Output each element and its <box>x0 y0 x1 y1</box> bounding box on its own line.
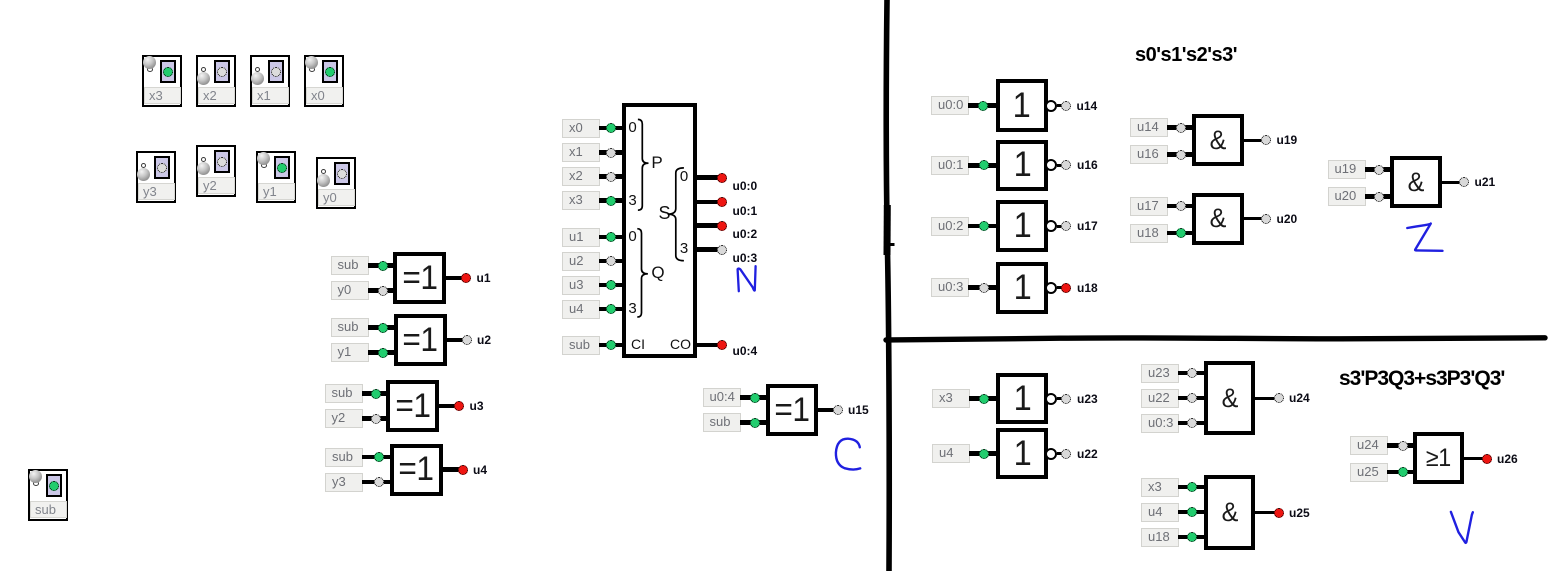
adder P pin 3 <box>603 190 663 212</box>
adder Q group brace <box>637 229 648 317</box>
and gate u21 <box>1390 156 1442 208</box>
tag u14 (to u19) <box>1130 118 1168 137</box>
input switch x3 (on) <box>142 55 182 107</box>
wire u0:3->u18 gate <box>968 285 1000 290</box>
output dot u19 <box>1261 135 1271 145</box>
wire adder S->u0:1 <box>693 200 718 205</box>
tag sub (adder input) <box>562 336 600 355</box>
wire x3->u25 gate <box>1178 485 1208 490</box>
net label u21 <box>1475 175 1496 189</box>
net label u15 <box>848 403 869 417</box>
tag x3 (to u23) <box>932 389 970 408</box>
tag u20 (to u21) <box>1328 187 1366 206</box>
output dot u20 <box>1261 214 1271 224</box>
inverter bubble <box>1045 220 1057 232</box>
wire adder S->u0:0 <box>693 175 718 180</box>
tag y1 (to u2) <box>331 343 369 362</box>
output dot u22 <box>1061 449 1071 459</box>
wire u25->u26 gate <box>1387 470 1417 475</box>
net label u0:1 <box>733 204 758 218</box>
net label u19 <box>1277 133 1298 147</box>
tag x2 (adder input) <box>562 167 600 186</box>
wire u18 output <box>1057 286 1064 289</box>
input dot u0:0 <box>978 101 988 111</box>
xor gate u3 <box>386 380 439 432</box>
adder CI pin label <box>631 334 645 354</box>
net label u0:0 <box>733 179 758 193</box>
tag y2 (to u3) <box>325 409 363 428</box>
tag u18 (to u25) <box>1141 528 1179 547</box>
tag u22 (to u24) <box>1141 389 1179 408</box>
wire sub->u1 gate <box>368 263 398 268</box>
wire u19->u21 gate <box>1365 167 1395 172</box>
wire u20->u21 gate <box>1365 194 1395 199</box>
adder/ALU block U0 <box>622 103 697 358</box>
input dot u2 adder <box>606 256 616 266</box>
input dot u20 <box>1374 192 1384 202</box>
input switch y2 (off) <box>196 145 236 197</box>
tag u0:2 (to u17) <box>931 217 969 236</box>
divider line vertical <box>886 0 889 571</box>
tag y0 (to u1) <box>331 281 369 300</box>
output dot u1 <box>461 273 471 283</box>
divider line horizontal <box>886 338 1545 340</box>
output dot u21 <box>1459 177 1469 187</box>
wire u19 output <box>1240 139 1262 142</box>
inverter bubble <box>1045 282 1057 294</box>
wire u0:0->u14 gate <box>968 103 1000 108</box>
wire adder CO->u0:4 <box>693 343 718 348</box>
adder S pin 3 <box>654 238 714 260</box>
input dot y1 <box>378 348 388 358</box>
inverter bubble <box>1045 159 1057 171</box>
wire x3->adder <box>599 198 626 203</box>
adder S group brace <box>668 168 684 261</box>
input dot u25 <box>1398 467 1408 477</box>
net label u23 <box>1077 392 1098 406</box>
input dot u17 <box>1176 201 1186 211</box>
tag x1 (adder input) <box>562 143 600 162</box>
output dot u0:3 <box>717 245 727 255</box>
wire x2->adder <box>599 174 626 179</box>
tag u4 (adder input) <box>562 300 600 319</box>
tag u23 (to u24) <box>1141 364 1179 383</box>
xor gate u15 <box>766 384 818 436</box>
adder S group label <box>635 200 695 226</box>
input switch y1 (on) <box>256 151 296 203</box>
wire sub->u4 gate <box>362 455 394 460</box>
input dot sub <box>378 323 388 333</box>
net label u17 <box>1077 219 1098 233</box>
wire x0->adder <box>599 126 626 131</box>
input dot x1 adder <box>606 148 616 158</box>
input dot sub <box>374 452 384 462</box>
xor gate u1 <box>393 252 446 304</box>
not gate u23 <box>996 373 1048 424</box>
tag u0:4 (to u15) <box>703 388 741 407</box>
tag u17 (to u20) <box>1130 197 1168 216</box>
output dot u0:1 <box>717 197 727 207</box>
input dot sub <box>378 261 388 271</box>
wire u25 output <box>1251 511 1275 514</box>
tag sub (to u4) <box>325 448 363 467</box>
and gate u24 <box>1204 361 1255 435</box>
wire u0:1->u16 gate <box>968 163 1000 168</box>
tag u16 (to u19) <box>1130 145 1168 164</box>
input dot y3 <box>374 477 384 487</box>
wire u14 output <box>1057 104 1064 107</box>
pen mark Z (zero flag) <box>1407 224 1442 251</box>
input dot u14 <box>1176 123 1186 133</box>
wire u18->u20 gate <box>1167 231 1196 236</box>
net label u0:3 <box>733 251 758 265</box>
tag u2 (adder input) <box>562 252 600 271</box>
adder CO pin label <box>670 334 691 354</box>
input dot u0:3 <box>1187 418 1197 428</box>
wire u24 output <box>1251 397 1275 400</box>
wire sub->adder <box>599 343 626 348</box>
input switch x0 (on) <box>304 55 344 107</box>
tag u4 (to u25) <box>1141 503 1179 522</box>
title s0's1's2's3' <box>1135 44 1237 67</box>
output dot u4 <box>458 465 468 475</box>
output dot u26 <box>1482 454 1492 464</box>
tag u1 (adder input) <box>562 228 600 247</box>
adder Q pin 3 <box>603 298 663 320</box>
output dot u3 <box>454 401 464 411</box>
input dot u3 adder <box>606 280 616 290</box>
net label u14 <box>1077 99 1098 113</box>
pen mark V (overflow flag) <box>1451 512 1473 543</box>
output dot u24 <box>1274 393 1284 403</box>
input dot u0:3 <box>979 283 989 293</box>
output dot u0:0 <box>717 173 727 183</box>
input dot u22 <box>1187 393 1197 403</box>
tag u25 (to u26) <box>1350 463 1388 482</box>
input dot y0 <box>378 286 388 296</box>
wire u24->u26 gate <box>1387 443 1417 448</box>
wire u4->u25 gate <box>1178 510 1208 515</box>
input dot u1 adder <box>606 232 616 242</box>
wire y1->u2 gate <box>368 350 398 355</box>
wire u17->u20 gate <box>1167 204 1196 209</box>
input dot u24 <box>1398 441 1408 451</box>
and gate u20 <box>1192 193 1244 245</box>
wire sub->u2 gate <box>368 325 398 330</box>
input switch y3 (off) <box>136 151 176 203</box>
tag u0:1 (to u16) <box>931 156 969 175</box>
wire u20 output <box>1240 217 1262 220</box>
input switch x1 (off) <box>250 55 290 107</box>
wire y3->u4 gate <box>362 480 394 485</box>
adder Q group label <box>628 261 688 286</box>
input switch x2 (off) <box>196 55 236 107</box>
wire u3 output <box>435 404 455 409</box>
input dot u19 <box>1374 165 1384 175</box>
output dot u2 <box>462 335 472 345</box>
net label u16 <box>1077 158 1098 172</box>
output dot u18 <box>1061 283 1071 293</box>
net label u20 <box>1277 212 1298 226</box>
net label u22 <box>1077 447 1098 461</box>
output dot u15 <box>833 405 843 415</box>
output dot u17 <box>1061 221 1071 231</box>
input dot x3 <box>979 394 989 404</box>
output dot u16 <box>1061 160 1071 170</box>
tag x0 (adder input) <box>562 119 600 138</box>
not gate u14 <box>996 79 1048 132</box>
inverter bubble <box>1045 393 1057 405</box>
input dot u0:4 <box>750 393 760 403</box>
not gate u17 <box>996 200 1048 252</box>
wire u26 output <box>1460 457 1483 460</box>
input dot sub <box>371 389 381 399</box>
wire u17 output <box>1057 225 1064 228</box>
wire u21 output <box>1438 181 1460 184</box>
wire u22->u24 gate <box>1178 396 1208 401</box>
pen mark N (negative flag) <box>738 266 756 291</box>
tag sub (to u3) <box>325 384 363 403</box>
input dot x0 adder <box>606 123 616 133</box>
not gate u16 <box>996 140 1048 192</box>
tag sub (to u1) <box>331 256 369 275</box>
wire u4->u22 gate <box>969 451 1000 456</box>
input switch y0 (off) <box>316 157 356 209</box>
tag u4 (to u22) <box>932 444 970 463</box>
input dot u0:1 <box>979 160 989 170</box>
net label u18 <box>1077 281 1098 295</box>
output dot u14 <box>1061 101 1071 111</box>
not gate u22 <box>996 428 1048 479</box>
input dot x3 <box>1187 482 1197 492</box>
output dot u0:2 <box>717 221 727 231</box>
output dot u23 <box>1061 394 1071 404</box>
tag u3 (adder input) <box>562 276 600 295</box>
adder P group brace <box>638 119 649 210</box>
wire u16 output <box>1057 164 1064 167</box>
input dot x2 adder <box>606 172 616 182</box>
not gate u18 <box>996 262 1048 314</box>
wire u4->adder <box>599 307 626 312</box>
wire sub->u15 gate <box>740 420 770 425</box>
tag x3 (to u25) <box>1141 478 1179 497</box>
input dot u0:2 <box>979 221 989 231</box>
adder P pin 0 <box>603 117 663 139</box>
input dot u4 <box>1187 507 1197 517</box>
wire y2->u3 gate <box>362 416 391 421</box>
wire sub->u3 gate <box>362 391 391 396</box>
wire u2 output <box>443 338 463 343</box>
tag x3 (adder input) <box>562 191 600 210</box>
tag u18 (to u20) <box>1130 224 1168 243</box>
wire u1->adder <box>599 235 626 240</box>
wire y0->u1 gate <box>368 288 398 293</box>
wire u0:4->u15 gate <box>740 395 770 400</box>
input dot u23 <box>1187 368 1197 378</box>
net label u26 <box>1497 452 1518 466</box>
input dot x3 adder <box>606 196 616 206</box>
tag u0:0 (to u14) <box>931 96 969 115</box>
xor gate u4 <box>390 444 443 496</box>
wire u14->u19 gate <box>1167 125 1196 130</box>
wire adder S->u0:2 <box>693 223 718 228</box>
wire u0:2->u17 gate <box>968 224 1000 229</box>
input dot u4 <box>979 449 989 459</box>
inverter bubble <box>1045 448 1057 460</box>
net label u24 <box>1289 391 1310 405</box>
wire adder S->u0:3 <box>693 247 718 252</box>
input dot u18 <box>1187 532 1197 542</box>
adder S pin 0 <box>654 166 714 188</box>
wire u1 output <box>442 276 462 281</box>
or gate u26 <box>1413 432 1464 484</box>
tag sub (to u15) <box>703 413 741 432</box>
net label u0:4 <box>733 344 758 358</box>
net label u0:2 <box>733 227 758 241</box>
and gate u25 <box>1204 475 1255 550</box>
output dot u25 <box>1274 508 1284 518</box>
input dot y2 <box>371 414 381 424</box>
output dot u0:4 <box>717 340 727 350</box>
input dot sub adder <box>606 340 616 350</box>
adder P group label <box>627 151 687 176</box>
inverter bubble <box>1045 100 1057 112</box>
wire u23 output <box>1057 397 1064 400</box>
pen mark C (carry flag) <box>836 439 860 470</box>
net label u2 <box>477 333 491 347</box>
net label u1 <box>477 271 491 285</box>
wire u18->u25 gate <box>1178 535 1208 540</box>
wire u22 output <box>1057 452 1064 455</box>
net label u4 <box>473 463 487 477</box>
net label u3 <box>470 399 484 413</box>
adder Q pin 0 <box>603 226 663 248</box>
tag u24 (to u26) <box>1350 436 1388 455</box>
wire u3->adder <box>599 283 626 288</box>
title s3'P3Q3+s3P3'Q3' <box>1339 367 1504 391</box>
xor gate u2 <box>394 314 447 366</box>
wire u0:3->u24 gate <box>1178 421 1208 426</box>
tag sub (to u2) <box>331 318 369 337</box>
wire u23->u24 gate <box>1178 371 1208 376</box>
tag u0:3 (to u24) <box>1141 414 1179 433</box>
and gate u19 <box>1192 114 1244 166</box>
tag u19 (to u21) <box>1328 160 1366 179</box>
wire x1->adder <box>599 150 626 155</box>
wire u2->adder <box>599 259 626 264</box>
input switch sub (on) <box>28 469 68 521</box>
wire u15 output <box>814 408 834 411</box>
input dot u16 <box>1176 150 1186 160</box>
wire u16->u19 gate <box>1167 152 1196 157</box>
tag y3 (to u4) <box>325 473 363 492</box>
input dot u18 <box>1176 228 1186 238</box>
input dot sub <box>750 418 760 428</box>
wire x3->u23 gate <box>969 396 1000 401</box>
divider junction tick <box>886 243 895 246</box>
net label u25 <box>1289 506 1310 520</box>
tag u0:3 (to u18) <box>931 278 969 297</box>
wire u4 output <box>439 467 459 472</box>
input dot u4 adder <box>606 304 616 314</box>
